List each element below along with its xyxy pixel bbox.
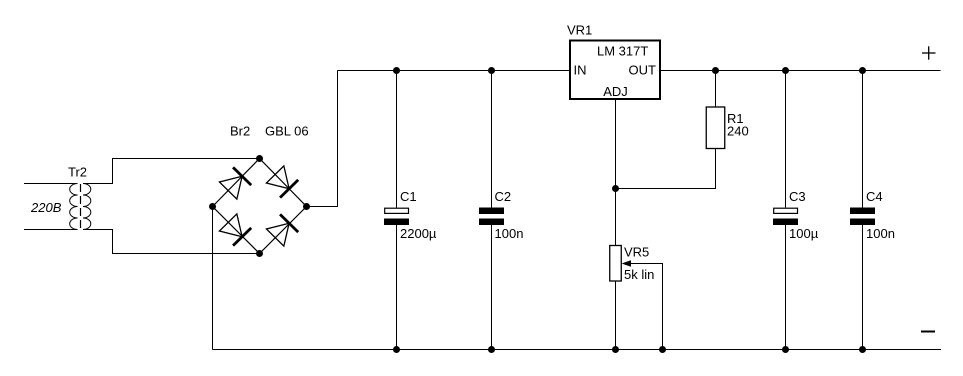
svg-text:100µ: 100µ: [789, 226, 819, 241]
transformer Tr2 core: [80, 184, 82, 230]
svg-text:2200µ: 2200µ: [400, 226, 437, 241]
wire: secondary top to bridge AC node: [87, 159, 260, 184]
wire: C2 bottom lead: [491, 225, 493, 350]
potentiometer VR5 wiper arrow: [622, 260, 632, 266]
terminal: plus output: [922, 46, 936, 59]
bridge Br2 diode (left to bottom): [219, 214, 251, 246]
node: C3 bottom rail junction: [782, 346, 789, 353]
svg-text:C1: C1: [400, 189, 417, 204]
wire: C2 top lead: [491, 71, 493, 208]
node: C1 top rail junction: [393, 67, 400, 74]
bridge Br2 diamond wires: [213, 159, 307, 254]
svg-text:VR5: VR5: [624, 245, 649, 260]
wire: bridge plus output right and up to top rail: [307, 71, 338, 207]
svg-text:LM 317T: LM 317T: [597, 44, 648, 59]
wire: VR5 bottom lead: [615, 281, 617, 350]
resistor R1 body: [706, 107, 725, 149]
node: ADJ / R1 junction: [612, 185, 619, 192]
svg-text:VR1: VR1: [567, 23, 592, 38]
svg-text:GBL 06: GBL 06: [265, 124, 309, 139]
capacitor C3 plates (polarized): [773, 208, 798, 225]
svg-text:C3: C3: [789, 189, 806, 204]
wire: R1 top lead: [715, 71, 717, 108]
svg-text:240: 240: [727, 124, 749, 139]
node: bridge top AC: [256, 155, 263, 162]
wire: C4 bottom lead: [862, 225, 864, 350]
wire: C1 bottom lead: [396, 225, 398, 350]
svg-text:Tr2: Tr2: [68, 165, 87, 180]
svg-text:IN: IN: [574, 63, 587, 78]
wire: C3 bottom lead: [785, 225, 787, 350]
svg-text:Br2: Br2: [230, 124, 250, 139]
svg-text:100n: 100n: [866, 226, 895, 241]
node: C2 top rail junction: [488, 67, 495, 74]
svg-text:ADJ: ADJ: [603, 84, 628, 99]
node: wiper bottom rail junction: [659, 346, 666, 353]
wire: secondary bottom to bridge AC node: [87, 230, 260, 254]
capacitor C4 plates: [850, 208, 875, 226]
wire: top rail from bridge to regulator IN: [338, 70, 571, 72]
wire: ADJ pin down to potentiometer: [615, 99, 617, 246]
bridge Br2 diode (top to right): [266, 166, 298, 198]
node: C1 bottom rail junction: [393, 346, 400, 353]
wire: top rail from regulator OUT to plus terminal: [660, 70, 941, 72]
bridge Br2 diode (left to top): [219, 167, 251, 199]
node: VR5 bottom rail junction: [612, 346, 619, 353]
wire: C3 top lead: [785, 71, 787, 208]
wire: C1 top lead: [396, 71, 398, 208]
wire: C4 top lead: [862, 71, 864, 208]
capacitor C2 plates: [479, 208, 504, 226]
capacitor C1 plates (polarized): [384, 208, 409, 225]
bridge Br2 diode (bottom to right): [266, 214, 298, 246]
transformer Tr2 primary winding: [70, 184, 78, 230]
wire: mains primary top lead: [24, 183, 74, 185]
svg-text:100n: 100n: [495, 226, 524, 241]
wire: bottom rail: [213, 349, 942, 351]
node: bridge bottom AC: [256, 250, 263, 257]
svg-text:OUT: OUT: [629, 63, 657, 78]
node: C2 bottom rail junction: [488, 346, 495, 353]
node: C4 top rail junction: [859, 67, 866, 74]
terminal: minus output: [921, 331, 935, 333]
svg-text:C4: C4: [866, 189, 883, 204]
potentiometer VR5 body: [610, 246, 622, 282]
transformer Tr2 secondary winding: [83, 184, 91, 230]
node: C3 top rail junction: [782, 67, 789, 74]
svg-text:220В: 220В: [30, 200, 62, 215]
wire: mains primary bottom lead: [24, 229, 74, 231]
regulator VR1 box: [570, 41, 660, 100]
node: C4 bottom rail junction: [859, 346, 866, 353]
wire: wiper to bottom rail: [631, 264, 663, 350]
svg-text:C2: C2: [495, 189, 512, 204]
node: R1 top rail junction: [712, 67, 719, 74]
wire: R1 bottom lead to ADJ line: [616, 149, 716, 189]
wire: bridge minus output down to bottom rail: [212, 207, 214, 350]
svg-text:5k lin: 5k lin: [624, 267, 654, 282]
node: bridge left (minus): [209, 203, 216, 210]
node: bridge right (plus): [303, 203, 310, 210]
